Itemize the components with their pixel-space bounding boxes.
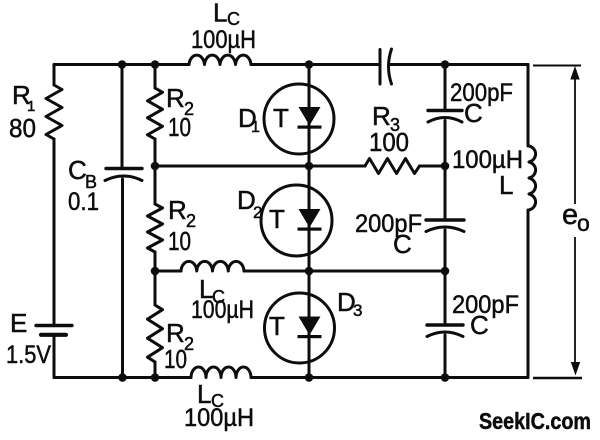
junction node bottom rail / CB	[118, 373, 127, 382]
tunnel diode D2 circle	[261, 185, 332, 256]
inductor LC (top, 100uH)	[189, 55, 251, 64]
label e_o (output)	[562, 199, 590, 236]
wire bottom rail right segment	[251, 376, 528, 379]
tunnel diode D1 triangle and cathode bar	[299, 107, 321, 126]
svg-text:L: L	[499, 170, 513, 200]
svg-text:E: E	[10, 308, 27, 338]
svg-text:3: 3	[353, 301, 362, 320]
label R2 (upper)	[166, 83, 194, 119]
capacitor (series, top rail) left plate	[379, 50, 382, 85]
label R2 (middle)	[168, 195, 196, 231]
battery E long plate	[36, 324, 72, 327]
svg-text:R: R	[168, 195, 187, 225]
svg-text:100µH: 100µH	[191, 26, 256, 54]
svg-text:80: 80	[9, 113, 36, 143]
tunnel diode D3 triangle and cathode bar	[299, 317, 321, 336]
e_o arrowhead down	[571, 362, 580, 376]
capacitor C (middle 200pF) curved plate	[426, 227, 464, 232]
wire R2 branch lead between middle and lower	[154, 252, 157, 305]
svg-text:T: T	[273, 103, 289, 133]
wire CB branch lower	[121, 179, 124, 378]
tunnel diode D3 circle	[265, 293, 335, 363]
capacitor C (upper 200pF) curved plate	[428, 118, 462, 123]
svg-text:e: e	[562, 199, 578, 231]
junction node top rail / diode column	[305, 60, 314, 69]
junction node bottom rail / diode column	[305, 373, 314, 382]
svg-text:100µH: 100µH	[191, 296, 254, 324]
capacitor CB top plate	[106, 167, 142, 170]
resistor R3 zigzag	[365, 159, 420, 174]
svg-text:10: 10	[164, 344, 187, 374]
junction node row1 / diode column	[305, 162, 314, 171]
wire left vertical lower lead	[53, 337, 56, 378]
tunnel diode D2 triangle and cathode bar	[299, 209, 321, 228]
capacitor (series, top rail) right curved plate	[389, 49, 392, 84]
svg-text:T: T	[269, 204, 285, 234]
wire diode column vertical	[308, 65, 311, 378]
e_o arrowhead up	[570, 66, 579, 80]
svg-text:10: 10	[168, 226, 191, 256]
svg-text:R: R	[166, 83, 185, 113]
svg-text:C: C	[68, 155, 87, 185]
capacitor C (lower 200pF) straight plate	[427, 323, 463, 326]
capacitor C (lower 200pF) curved plate	[427, 332, 463, 337]
label R3	[372, 101, 400, 135]
svg-text:1.5V: 1.5V	[6, 341, 51, 369]
wire top rail right segment	[389, 63, 528, 66]
inductor L (100uH, right vertical)	[529, 146, 536, 210]
capacitor C (middle 200pF) straight plate	[426, 218, 464, 221]
svg-text:SeekIC.com: SeekIC.com	[479, 408, 591, 434]
svg-text:T: T	[269, 311, 285, 341]
wire capacitor column lower segment	[444, 335, 447, 378]
svg-text:10: 10	[168, 112, 191, 142]
output dimension line e_o	[533, 66, 582, 379]
wire bottom rail left segment	[54, 376, 191, 379]
resistor R2 (middle) zigzag	[148, 204, 163, 252]
label CB	[68, 155, 97, 192]
wire right vertical upper segment	[527, 65, 530, 147]
label D1	[238, 103, 260, 136]
junction node row2 / capacitor column	[441, 267, 450, 276]
svg-text:C: C	[393, 229, 412, 259]
junction node top rail / CB	[118, 60, 127, 69]
svg-text:C: C	[470, 310, 489, 340]
wire middle row 1 right lead to node	[420, 165, 446, 168]
junction node row2 / diode column	[305, 267, 314, 276]
svg-text:1: 1	[251, 119, 260, 136]
wire R2 branch bottom lead	[154, 362, 157, 378]
label R1	[12, 80, 35, 115]
svg-text:C: C	[464, 98, 483, 128]
inductor LC (bottom, 100uH)	[191, 367, 251, 378]
wire top rail left segment	[54, 63, 189, 66]
wire R2 branch top lead	[154, 65, 157, 89]
svg-text:200pF: 200pF	[355, 210, 422, 238]
wire left vertical upper lead	[53, 65, 56, 86]
wire middle row 1 (y=166)	[155, 165, 365, 168]
svg-text:100: 100	[369, 127, 409, 157]
wire CB branch upper	[121, 65, 124, 168]
resistor R2 (lower) zigzag	[148, 305, 163, 362]
label R2 (lower)	[166, 318, 194, 354]
capacitor C (upper 200pF) straight plate	[428, 109, 462, 112]
wire middle row 2 right segment	[244, 270, 445, 273]
label LC (middle inductor)	[199, 274, 225, 307]
svg-text:0.1: 0.1	[68, 188, 99, 216]
junction node top rail / R2	[151, 60, 160, 69]
svg-text:2: 2	[253, 203, 262, 222]
svg-text:L: L	[213, 0, 227, 28]
label LC (bottom inductor)	[197, 379, 224, 411]
wire R2 branch lead between upper and middle	[154, 139, 157, 204]
svg-text:o: o	[577, 210, 590, 236]
capacitor CB curved bottom plate	[105, 176, 142, 181]
label D3	[337, 287, 362, 320]
wire capacitor column segment 3	[444, 230, 447, 324]
junction node bottom rail / R2	[151, 373, 160, 382]
wire middle row 2 left lead (y=271)	[155, 270, 181, 273]
battery E short plate	[41, 333, 66, 337]
label LC (top inductor)	[213, 0, 240, 29]
inductor LC (middle, 100uH)	[181, 261, 244, 271]
junction node row2 / R2	[151, 267, 160, 276]
wire right vertical lower segment	[527, 210, 530, 378]
resistor R2 (upper) zigzag	[148, 88, 163, 139]
junction node top rail / capacitor column	[441, 60, 450, 69]
junction node bottom rail / capacitor column	[441, 373, 450, 382]
svg-text:100µH: 100µH	[184, 404, 254, 432]
wire capacitor column upper segment	[444, 65, 447, 110]
wire left vertical middle lead	[53, 139, 56, 323]
resistor R1 zigzag	[46, 85, 62, 139]
junction node row1 / capacitor column	[441, 162, 450, 171]
wire capacitor column segment 2	[444, 121, 447, 220]
wire top rail middle segment	[251, 63, 379, 66]
tunnel diode D1 circle	[264, 84, 334, 154]
label D2	[237, 185, 262, 222]
junction node row1 / R2	[151, 162, 160, 171]
